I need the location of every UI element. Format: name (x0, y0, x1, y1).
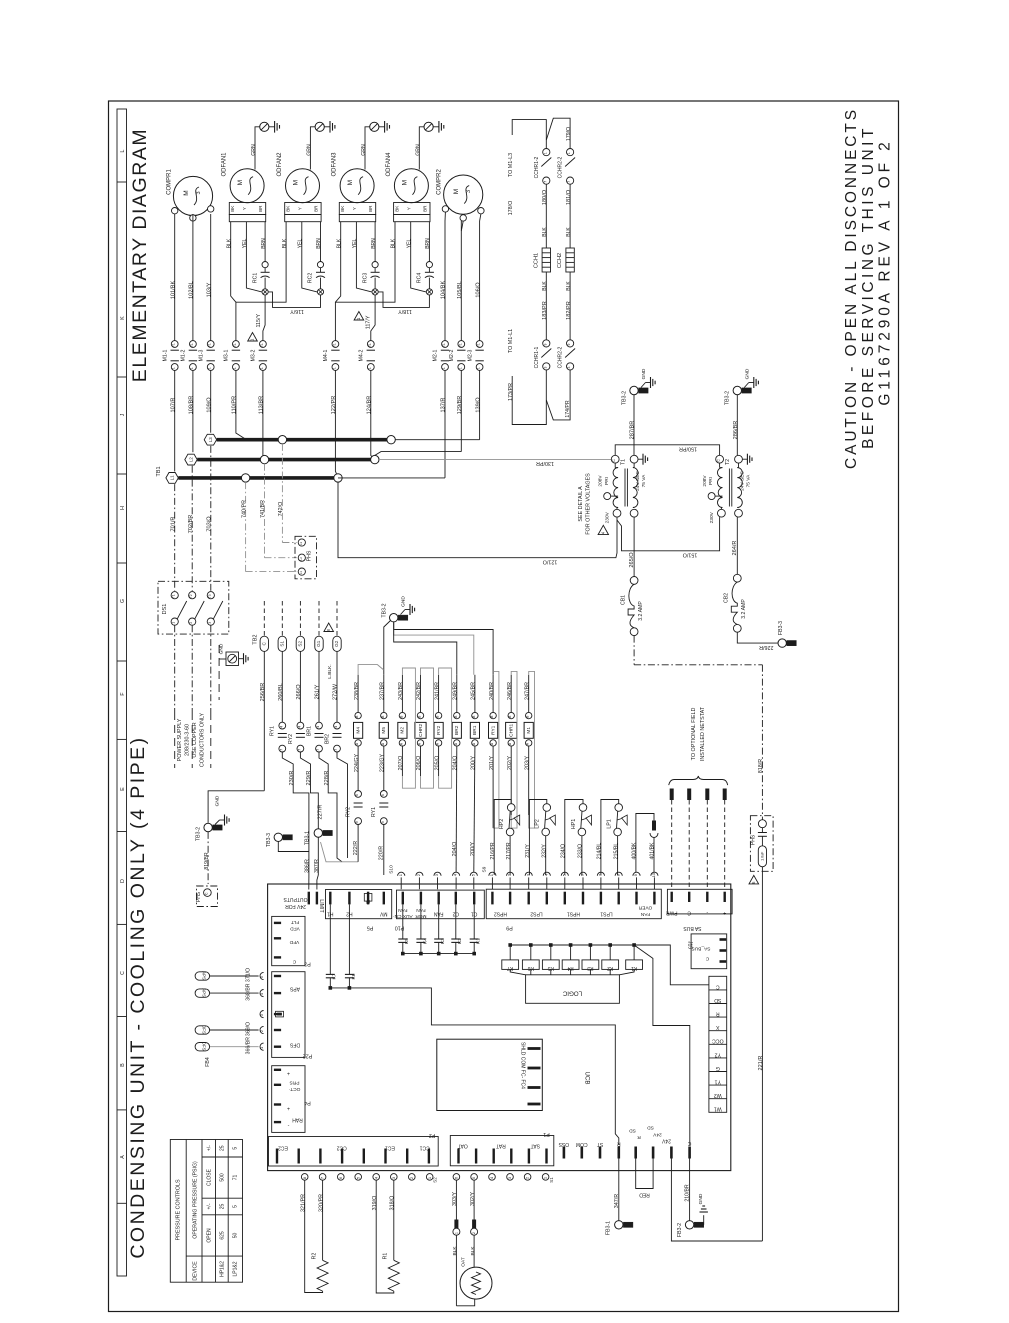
svg-text:BRN: BRN (261, 238, 267, 249)
svg-text:+: + (287, 1105, 290, 1111)
svg-text:DS1: DS1 (162, 604, 168, 615)
svg-text:5: 5 (233, 1205, 239, 1208)
wire 121/O (338, 482, 617, 564)
svg-text:173/PR: 173/PR (508, 383, 514, 401)
svg-text:GND: GND (698, 1193, 704, 1204)
svg-text:T2: T2 (189, 594, 193, 598)
svg-text:118/Y: 118/Y (398, 308, 412, 314)
svg-text:B: B (120, 1063, 126, 1067)
svg-text:DFS: DFS (289, 1042, 300, 1048)
svg-text:BRN: BRN (371, 238, 377, 249)
svg-text:113/BR: 113/BR (259, 396, 265, 414)
svg-text:230V: 230V (709, 511, 715, 523)
svg-text:1: 1 (368, 367, 372, 369)
svg-text:LP1&2: LP1&2 (233, 1261, 239, 1276)
svg-text:L1: L1 (299, 571, 303, 575)
svg-text:227/R: 227/R (318, 805, 324, 820)
bus L2 (197, 455, 379, 463)
terminal TB3-2 with ground (center) (381, 596, 414, 622)
zone strip (117, 109, 127, 1276)
svg-text:229/R: 229/R (306, 771, 312, 786)
svg-text:P2: P2 (429, 1132, 436, 1138)
svg-text:BLK: BLK (282, 238, 288, 248)
svg-text:L.BLK.: L.BLK. (327, 664, 333, 678)
svg-text:110/PR: 110/PR (232, 396, 238, 414)
svg-text:215/BL: 215/BL (613, 843, 619, 860)
svg-text:R: R (617, 1141, 621, 1147)
wire 201/Y RY1 coil to loop (493, 671, 499, 828)
ground wire GRN ODFAN3 (361, 121, 389, 170)
terminal TB3-2 ground stub (left) (196, 815, 230, 885)
relay contact RY1 (M5 branch) (371, 748, 388, 876)
wires 230/R 229/R 228/R (282, 752, 347, 875)
svg-text:4: 4 (334, 726, 338, 728)
crankcase heater circuit CCHR1 / CCH1 (508, 120, 551, 425)
svg-text:TO OPTIONAL FIELD: TO OPTIONAL FIELD (691, 708, 697, 761)
svg-text:287/BR: 287/BR (630, 421, 636, 440)
svg-text:CB1: CB1 (621, 595, 627, 605)
svg-text:210/BR: 210/BR (685, 1184, 691, 1202)
svg-text:VFD: VFD (289, 939, 299, 945)
svg-text:T1: T1 (477, 343, 481, 347)
svg-text:CCHR1-2: CCHR1-2 (534, 156, 540, 178)
bus L3 (217, 436, 480, 444)
svg-text:150/PR: 150/PR (679, 446, 697, 452)
svg-text:CHR1: CHR1 (509, 723, 515, 736)
svg-text:625: 625 (220, 1231, 226, 1240)
svg-text:1: 1 (477, 367, 481, 369)
svg-text:DFS: DFS (201, 1042, 206, 1051)
svg-text:T1: T1 (260, 343, 264, 347)
branch wires ODFAN3 (335, 222, 379, 341)
relay coil BR2 (452, 675, 461, 771)
svg-text:PHS: PHS (196, 891, 202, 902)
svg-text:G1: G1 (316, 640, 321, 647)
svg-text:P5: P5 (367, 925, 374, 931)
contactor contacts M3 M4 for fans (224, 312, 375, 478)
svg-text:DEVICE: DEVICE (193, 1261, 199, 1281)
ground screw GND (219, 643, 248, 700)
svg-text:303/Y: 303/Y (452, 1192, 458, 1206)
note SEE DETAIL A (578, 473, 609, 535)
svg-text:+/-: +/- (206, 1203, 212, 1209)
wires COMPR2 to bus (375, 212, 484, 478)
svg-text:174/PR: 174/PR (565, 400, 571, 418)
svg-text:203/Y: 203/Y (524, 756, 530, 770)
resistor R2 loop (300, 1180, 328, 1293)
svg-text:115/Y: 115/Y (256, 313, 262, 327)
svg-text:50: 50 (233, 1233, 239, 1239)
relay coil RY2 (434, 675, 443, 771)
svg-text:TB2: TB2 (253, 634, 259, 644)
transformer T2 (702, 454, 752, 524)
svg-text:BR: BR (258, 205, 263, 212)
svg-text:7: 7 (567, 181, 571, 183)
phase monitor PHS (lower) (749, 816, 773, 884)
svg-text:RY2: RY2 (346, 807, 352, 817)
connector FC4 SHLD COM block (437, 1039, 543, 1110)
svg-text:G: G (120, 599, 126, 603)
svg-text:T1: T1 (621, 459, 627, 465)
svg-text:231/Y: 231/Y (525, 844, 531, 858)
connector pins S9 (482, 866, 658, 889)
svg-text:208V: 208V (702, 475, 708, 487)
svg-text:PHS: PHS (307, 550, 313, 561)
svg-text:W1: W1 (714, 1106, 722, 1112)
svg-text:702/BR: 702/BR (188, 515, 194, 534)
table PRESSURE CONTROLS (170, 1140, 242, 1283)
svg-text:202/Y: 202/Y (507, 756, 513, 770)
svg-text:3.2 AMP: 3.2 AMP (741, 599, 747, 619)
svg-text:APS: APS (289, 985, 300, 991)
svg-text:T2: T2 (725, 459, 731, 465)
relay coil M2 (398, 675, 407, 771)
connector P22 (272, 972, 313, 1059)
connector P9 (486, 889, 661, 930)
wires 400/BK 401/BK (632, 814, 658, 873)
svg-text:264/R: 264/R (732, 541, 738, 556)
svg-text:-: - (287, 1123, 289, 1129)
svg-text:3: 3 (208, 622, 212, 624)
svg-text:178/O: 178/O (508, 201, 514, 216)
circuit breaker CB2 (724, 517, 778, 650)
svg-text:K3: K3 (440, 938, 446, 944)
branch wires ODFAN4 (335, 222, 434, 303)
svg-text:Y: Y (406, 207, 411, 210)
svg-text:1: 1 (567, 152, 571, 154)
svg-text:742/O: 742/O (278, 502, 284, 517)
ground wire GRN ODFAN4 (415, 121, 443, 170)
svg-text:GRN: GRN (251, 144, 257, 156)
svg-text:C: C (687, 1140, 691, 1146)
svg-text:TO M1-L1: TO M1-L1 (508, 329, 514, 353)
svg-text:LOGIC: LOGIC (562, 990, 582, 997)
svg-text:OPEN: OPEN (206, 1228, 212, 1243)
svg-text:819/BR: 819/BR (204, 852, 210, 870)
terminal TB3-1 (305, 829, 359, 875)
svg-text:24V: 24V (661, 1138, 671, 1144)
terminal TB3-2 (left) with ground (621, 368, 655, 455)
svg-text:T1: T1 (172, 594, 176, 598)
relay coil M5 (379, 675, 388, 772)
svg-text:272/W: 272/W (333, 683, 339, 700)
svg-text:222/R: 222/R (353, 841, 359, 855)
svg-text:RAH: RAH (292, 1117, 303, 1123)
fuse FB3-1 wire 347/R (605, 1159, 633, 1236)
wire loops for CHR1 M1 coils (511, 671, 534, 828)
svg-text:E: E (120, 787, 126, 791)
svg-text:FLT: FLT (291, 919, 299, 925)
svg-text:243/BR: 243/BR (398, 682, 404, 700)
svg-text:230V: 230V (605, 511, 611, 523)
svg-text:387/R: 387/R (314, 859, 320, 873)
ground wire GRN ODFAN1 (251, 121, 279, 170)
svg-text:M1-1: M1-1 (162, 349, 168, 361)
svg-text:C: C (120, 971, 126, 975)
svg-text:TB3-1: TB3-1 (305, 831, 311, 845)
relays K5-K1 capacitors (398, 904, 481, 955)
svg-text:GRN: GRN (307, 144, 313, 156)
svg-text:BLK: BLK (566, 227, 572, 237)
connector P3 (272, 916, 311, 966)
svg-text:FB3-2: FB3-2 (677, 1223, 683, 1237)
svg-text:+: + (723, 910, 726, 916)
svg-text:102/BL: 102/BL (189, 281, 195, 299)
svg-text:234/O: 234/O (561, 844, 567, 858)
svg-text:204/O: 204/O (452, 842, 458, 857)
svg-text:PWR: PWR (665, 910, 677, 916)
svg-text:200/Y: 200/Y (470, 842, 476, 856)
svg-text:9: 9 (355, 821, 359, 823)
logic block LOGIC (526, 975, 620, 1004)
svg-text:LPS2: LPS2 (530, 911, 542, 917)
svg-text:K5: K5 (404, 938, 410, 944)
connector P5 (326, 890, 392, 931)
svg-text:129/BR: 129/BR (457, 396, 463, 415)
phase monitor PHS (295, 536, 317, 579)
svg-text:M2-1: M2-1 (433, 349, 439, 361)
svg-text:FOR OTHER VOLTAGES: FOR OTHER VOLTAGES (586, 473, 592, 535)
svg-text:200/Y: 200/Y (471, 756, 477, 770)
svg-text:117/Y: 117/Y (366, 315, 372, 329)
svg-text:256/BR: 256/BR (260, 683, 266, 702)
relay contact RY2 (M4 branch) (346, 748, 363, 862)
svg-text:T3: T3 (208, 594, 212, 598)
wire 150/PR (615, 445, 719, 456)
svg-text:105/BL: 105/BL (457, 281, 463, 299)
svg-text:107/R: 107/R (170, 398, 176, 413)
svg-text:241/BR: 241/BR (434, 682, 440, 700)
svg-text:TB3-2: TB3-2 (196, 827, 202, 841)
svg-text:RY1: RY1 (270, 726, 276, 736)
phase monitor PHS stub (196, 886, 218, 907)
bus L1 (178, 474, 445, 482)
svg-text:179/O: 179/O (566, 127, 572, 141)
svg-text:YEL: YEL (298, 239, 304, 249)
svg-text:USE COPPER: USE COPPER (192, 722, 198, 757)
svg-text:S9: S9 (482, 866, 488, 872)
connector J15 SA BUS (687, 934, 727, 969)
svg-text:BLK: BLK (542, 281, 548, 291)
svg-text:G: G (716, 1065, 720, 1071)
svg-text:P3: P3 (304, 961, 311, 967)
svg-text:242/BR: 242/BR (416, 682, 422, 700)
svg-text:POWER SUPPLY: POWER SUPPLY (177, 718, 183, 761)
svg-text:24V FOR: 24V FOR (285, 903, 306, 909)
svg-text:K6: K6 (351, 973, 357, 979)
svg-text:OPERATING PRESSURE (PSIG): OPERATING PRESSURE (PSIG) (193, 1161, 199, 1239)
svg-text:M: M (183, 190, 190, 195)
wire 24V pin from 221/R (671, 1159, 762, 1242)
svg-text:10: 10 (651, 872, 656, 877)
svg-text:M2-2: M2-2 (449, 349, 455, 361)
svg-text:TB3-2: TB3-2 (381, 603, 387, 617)
svg-text:OSS: OSS (558, 1141, 569, 1147)
svg-text:122/PR: 122/PR (331, 396, 337, 415)
svg-text:5: 5 (233, 1147, 239, 1150)
terminal strip C SD R X OCC Y2 G Y1 W2 W1 (709, 976, 727, 1112)
svg-text:CCHR1-1: CCHR1-1 (534, 346, 540, 368)
wire K6/K7 bus to R pin (330, 988, 619, 1145)
relay coil M1 (524, 675, 533, 770)
svg-text:COMPR2: COMPR2 (437, 169, 443, 195)
svg-text:K2: K2 (457, 938, 463, 944)
svg-text:GND: GND (401, 596, 407, 607)
svg-text:COMPR1: COMPR1 (166, 169, 172, 195)
svg-text:BRN: BRN (425, 238, 431, 249)
svg-text:204/O: 204/O (453, 756, 459, 771)
svg-text:INSTALLED NETSTAT: INSTALLED NETSTAT (700, 706, 706, 761)
svg-text:3: 3 (466, 190, 472, 193)
connector pins S10 (388, 865, 477, 889)
svg-text:BLK: BLK (336, 238, 342, 248)
svg-text:MV: MV (379, 911, 387, 917)
svg-text:BEFORE SERVICING THIS UNIT: BEFORE SERVICING THIS UNIT (860, 125, 877, 449)
svg-text:K: K (120, 316, 126, 320)
svg-text:139/O: 139/O (475, 397, 481, 413)
svg-text:M: M (347, 180, 354, 185)
svg-text:1: 1 (208, 367, 212, 369)
svg-text:RY1: RY1 (490, 725, 496, 735)
svg-text:216/PR: 216/PR (490, 842, 496, 860)
motor ODFAN3 (332, 152, 376, 222)
svg-text:C: C (705, 956, 709, 962)
svg-text:T1: T1 (458, 343, 462, 347)
svg-text:208/230-3-60: 208/230-3-60 (185, 724, 191, 756)
svg-text:246/BR: 246/BR (507, 682, 513, 700)
svg-text:318/O: 318/O (390, 1196, 396, 1211)
svg-text:321/PR: 321/PR (300, 1194, 306, 1212)
svg-text:BR: BR (314, 205, 319, 212)
svg-text:CONDUCTORS ONLY: CONDUCTORS ONLY (200, 712, 206, 767)
wire 221/R (758, 867, 764, 1241)
svg-text:386/R: 386/R (305, 859, 311, 873)
svg-text:BR: BR (368, 205, 373, 212)
svg-text:7: 7 (334, 749, 338, 751)
svg-text:BR1: BR1 (306, 726, 312, 736)
svg-text:500: 500 (220, 1173, 226, 1182)
svg-text:M3-2: M3-2 (251, 349, 257, 361)
motor COMPR1 (166, 169, 214, 222)
svg-text:PRI: PRI (708, 477, 714, 485)
svg-text:103/Y: 103/Y (206, 282, 212, 297)
svg-text:400/BK: 400/BK (632, 842, 638, 860)
svg-text:T1: T1 (332, 343, 336, 347)
svg-text:ODFAN3: ODFAN3 (332, 152, 338, 177)
svg-text:GRN: GRN (361, 144, 367, 156)
svg-text:M1-3: M1-3 (198, 349, 204, 361)
svg-text:9: 9 (381, 821, 385, 823)
svg-text:25: 25 (220, 1204, 226, 1210)
ground wire GRN ODFAN2 (307, 121, 335, 170)
svg-text:K1: K1 (476, 938, 482, 944)
svg-text:TB3-2: TB3-2 (725, 391, 731, 405)
terminal block TB2 field terminals (253, 601, 342, 679)
svg-text:207/O: 207/O (398, 756, 404, 771)
svg-text:OUTPUTS: OUTPUTS (283, 896, 308, 902)
svg-text:237/BR: 237/BR (380, 682, 386, 700)
svg-text:CB2: CB2 (724, 593, 730, 603)
svg-text:137/R: 137/R (441, 398, 447, 413)
caution note (843, 107, 894, 469)
svg-text:ST: ST (597, 1141, 603, 1147)
motor COMPR2 (437, 169, 485, 222)
svg-text:CAUTION - OPEN ALL DISCONNECTS: CAUTION - OPEN ALL DISCONNECTS (843, 107, 860, 469)
svg-text:K4: K4 (422, 938, 428, 944)
svg-text:LIMIT: LIMIT (318, 899, 324, 913)
svg-text:25: 25 (220, 1145, 226, 1151)
svg-text:R: R (637, 1134, 641, 1140)
svg-text:201/Y: 201/Y (489, 756, 495, 770)
svg-text:RY2: RY2 (436, 725, 442, 735)
svg-text:M4: M4 (355, 727, 361, 734)
svg-text:24V SEC: 24V SEC (635, 471, 641, 491)
svg-text:CHR2: CHR2 (418, 723, 424, 736)
connector P1 (450, 1131, 554, 1166)
svg-text:PHS: PHS (750, 834, 756, 845)
svg-text:247/BR: 247/BR (524, 682, 530, 700)
svg-text:206/O: 206/O (416, 756, 422, 771)
terminal TB3-2 (right) with ground (725, 368, 759, 455)
svg-text:6: 6 (381, 794, 385, 796)
svg-text:24V: 24V (652, 1132, 661, 1138)
pins R SD 24V C (617, 1125, 692, 1159)
svg-text:OAT: OAT (461, 1257, 467, 1267)
control board UCB outline (268, 884, 731, 1171)
svg-text:Y1: Y1 (715, 1079, 721, 1085)
svg-text:HP1: HP1 (571, 819, 577, 830)
wires COMPR1 to TB1 (162, 214, 215, 472)
wire K1 to C pin (634, 945, 690, 1146)
svg-text:L: L (120, 149, 126, 152)
svg-text:CCHR2-2: CCHR2-2 (558, 156, 564, 178)
svg-text:320/PR: 320/PR (318, 1194, 324, 1212)
svg-text:180/O: 180/O (542, 189, 548, 205)
svg-text:APS: APS (201, 988, 206, 997)
svg-text:71: 71 (233, 1175, 239, 1181)
svg-text:SA BUS: SA BUS (683, 925, 702, 931)
svg-text:4: 4 (316, 726, 320, 728)
svg-text:24V SEC: 24V SEC (740, 471, 746, 491)
svg-text:R: R (716, 1011, 720, 1017)
svg-text:S1: S1 (280, 641, 285, 647)
svg-text:EC2: EC2 (278, 1145, 288, 1151)
svg-text:371/O: 371/O (245, 968, 251, 982)
svg-text:P22: P22 (303, 1053, 313, 1059)
svg-text:SAT: SAT (531, 1143, 540, 1149)
svg-text:266/O: 266/O (296, 684, 302, 700)
svg-text:CC2: CC2 (336, 1145, 346, 1151)
svg-text:TB3-3: TB3-3 (266, 833, 272, 847)
jumper RED SD pins (636, 1159, 653, 1198)
svg-text:366/BR: 366/BR (245, 1037, 251, 1055)
svg-text:ODFAN2: ODFAN2 (277, 152, 283, 177)
svg-text:1: 1 (260, 367, 264, 369)
svg-text:+/-: +/- (206, 1145, 212, 1151)
svg-text:RC1: RC1 (252, 273, 258, 283)
svg-text:M2-3: M2-3 (467, 349, 473, 361)
power supply leads (175, 625, 211, 768)
svg-text:818/R: 818/R (758, 759, 764, 773)
relay contacts RY1 RY2 BR1 BR2 (260, 651, 342, 790)
logic relay outputs K7-K1 (502, 943, 643, 975)
fuse FB3-3 (778, 621, 796, 647)
wire K1 bus to terminal C (634, 945, 709, 985)
pressure switch HP1 (561, 800, 592, 876)
svg-text:368/BR: 368/BR (245, 983, 251, 1001)
svg-text:GND: GND (215, 795, 221, 806)
svg-text:181/O: 181/O (566, 189, 572, 205)
